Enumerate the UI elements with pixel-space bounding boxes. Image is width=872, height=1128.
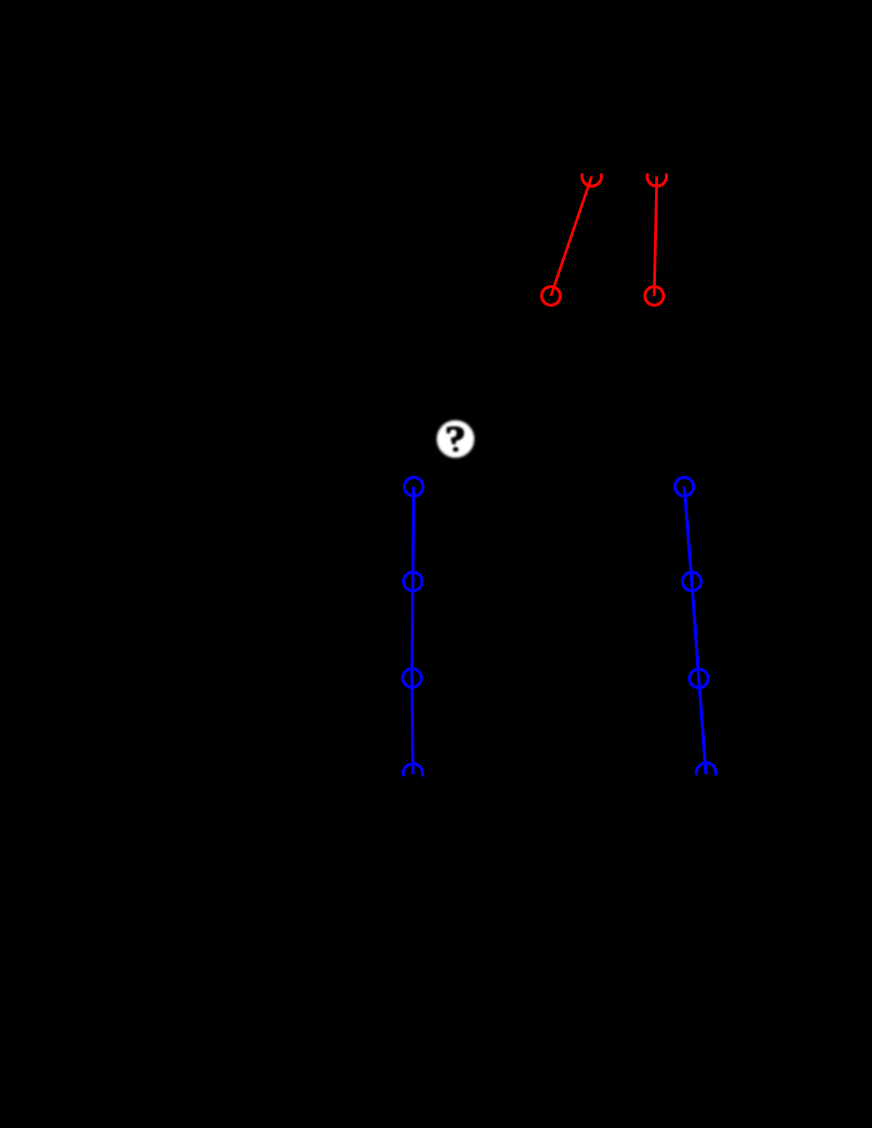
question mark glyph dot xyxy=(453,447,459,452)
left hip joint circle (blue) xyxy=(404,477,423,496)
right arm limb line (red, elbow to wrist) xyxy=(654,176,657,296)
right ankle joint circle (blue) xyxy=(690,669,709,688)
right leg shin line (blue, knee to ankle) xyxy=(692,582,699,679)
left leg thigh line (blue, hip to knee) xyxy=(411,487,415,582)
left leg foot line (blue, ankle to foot) xyxy=(410,678,414,774)
left arm limb line (red, elbow to wrist) xyxy=(551,176,592,296)
left arm broken-joint cup (red, opens up) xyxy=(582,175,601,186)
left foot broken-joint dome (blue, opens down) xyxy=(403,764,422,775)
question mark glyph group (soft) xyxy=(447,427,463,452)
left ankle joint circle (blue) xyxy=(403,669,422,688)
question badge circle (white, soft edge) xyxy=(437,420,475,458)
left knee joint circle (blue) xyxy=(404,572,423,591)
left leg shin line (blue, knee to ankle) xyxy=(410,582,414,679)
left wrist joint circle (red) xyxy=(542,287,561,306)
question mark glyph hook xyxy=(447,427,463,444)
right leg foot line (blue, ankle to foot) xyxy=(699,679,706,775)
right hip joint circle (blue) xyxy=(675,477,694,496)
right wrist joint circle (red) xyxy=(645,287,664,306)
right foot broken-joint dome (blue, opens down) xyxy=(696,763,715,774)
right arm broken-joint cup (red, opens up) xyxy=(647,175,666,186)
right leg thigh line (blue, hip to knee) xyxy=(684,487,692,582)
right knee joint circle (blue) xyxy=(683,572,702,591)
